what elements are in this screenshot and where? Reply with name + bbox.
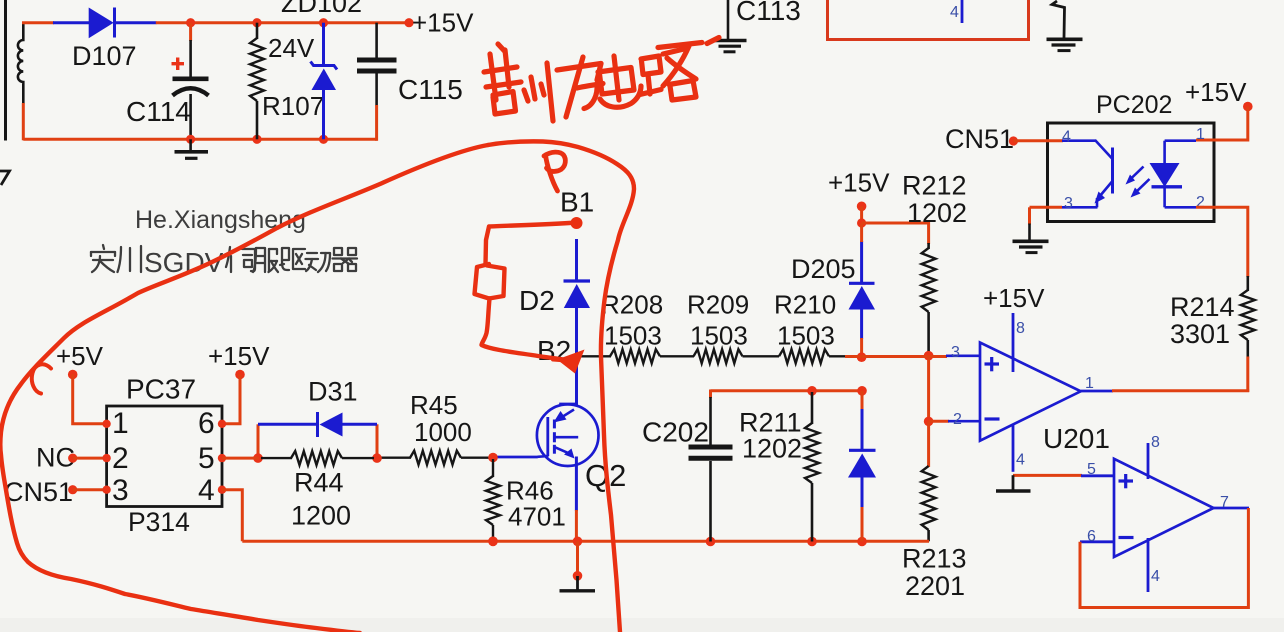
resistor R213: [922, 421, 936, 541]
wire to R212 top: [862, 223, 929, 244]
node R45 Q2 base: [488, 453, 498, 463]
label 1503 a: [604, 321, 662, 351]
node bottom C114: [186, 135, 195, 144]
wire Q2 collector: [575, 356, 578, 405]
label 1503 b: [690, 321, 748, 351]
hand-drawn wire box to B2: [482, 299, 564, 360]
svg-text:D31: D31: [308, 377, 358, 407]
svg-text:1503: 1503: [604, 321, 662, 351]
pin 1 op-amp1: [1081, 375, 1113, 392]
svg-text:3: 3: [951, 344, 960, 361]
ground right of block: [1047, 1, 1083, 51]
wire D31 right stub: [376, 424, 379, 458]
label R211: [739, 408, 802, 438]
wire C202-R211 top: [711, 389, 863, 392]
wire pin3 to ground: [1030, 207, 1063, 241]
wire to op-amp pin3: [862, 354, 980, 358]
wire D31 left stub: [257, 424, 260, 458]
resistor R44: [261, 451, 374, 465]
label 4701: [508, 502, 566, 532]
svg-text:2201: 2201: [905, 571, 965, 601]
svg-text:5: 5: [198, 442, 215, 475]
label U201: [1043, 423, 1110, 454]
pin 3 label PC202: [1064, 195, 1073, 212]
label D107: [72, 41, 137, 71]
label R208: [601, 290, 663, 320]
pin 5 digit: [198, 442, 215, 475]
label 1200: [291, 501, 351, 531]
label 1202 R212: [907, 198, 967, 228]
label R212: [902, 171, 967, 201]
label 1000: [414, 417, 472, 447]
wire pin4 down: [222, 490, 242, 542]
node +15V PC37: [235, 370, 245, 380]
node +5V: [68, 370, 78, 380]
svg-text:D107: D107: [72, 41, 137, 71]
label +15V top: [412, 8, 474, 38]
label +15V PC202: [1185, 77, 1247, 107]
label R213: [902, 544, 967, 574]
resistor R46: [486, 459, 500, 541]
resistor R208: [610, 349, 660, 363]
svg-text:1503: 1503: [777, 321, 835, 351]
svg-text:1000: 1000: [414, 417, 472, 447]
label ZD102: [281, 0, 362, 18]
label R209: [687, 290, 749, 320]
label +15V D205: [828, 168, 890, 198]
pin 8 U201: [1148, 434, 1160, 479]
op-amp U201 triangle: [1114, 459, 1214, 557]
svg-text:5: 5: [1087, 461, 1096, 478]
svg-text:1200: 1200: [291, 501, 351, 531]
label 2201: [905, 571, 965, 601]
svg-text:4: 4: [1151, 568, 1160, 585]
svg-text:+15V: +15V: [983, 283, 1045, 313]
label C202: [642, 417, 709, 448]
node bus D205b: [857, 537, 867, 547]
svg-text:+15V: +15V: [208, 341, 270, 371]
light arrows PC202: [1126, 167, 1150, 198]
node pin3 junction: [924, 351, 934, 361]
svg-text:C202: C202: [642, 417, 709, 448]
wire NC to pin2: [73, 457, 107, 460]
capacitor C115: [357, 23, 397, 141]
wire CN51 to pin3: [73, 488, 107, 491]
hand-drawn letter P: [544, 152, 565, 191]
label R107: [262, 91, 324, 121]
svg-text:4701: 4701: [508, 502, 566, 532]
wire R209-R210: [743, 355, 780, 357]
phototransistor PC202: [1062, 140, 1113, 207]
svg-text:R208: R208: [601, 290, 663, 320]
wire pin2 to R214: [1196, 207, 1248, 277]
capacitor C113 lead: [727, 0, 730, 40]
svg-text:1: 1: [112, 407, 129, 440]
node top R107: [252, 18, 261, 27]
node bus R211: [807, 537, 817, 547]
label He.Xiangsheng: [135, 206, 306, 234]
optocoupler PC37 box: [107, 406, 222, 507]
node CN51 left: [68, 485, 77, 494]
diode D107: [53, 8, 157, 39]
node +15V D205: [857, 202, 867, 212]
node pin2 junction: [924, 417, 934, 427]
label 24V: [268, 33, 315, 63]
svg-text:8: 8: [1016, 320, 1025, 337]
label B1: [560, 187, 594, 218]
pin 3 label op-amp: [951, 344, 960, 361]
hand-drawn loop left branch: [0, 145, 488, 632]
svg-text:P314: P314: [128, 507, 190, 537]
ground PC202 pin3: [1013, 241, 1049, 252]
resistor R211: [805, 392, 819, 542]
svg-text:C113: C113: [736, 0, 801, 26]
wire +15V stub: [860, 206, 863, 224]
capacitor C202: [689, 390, 733, 542]
wire Q2 emitter: [575, 457, 578, 542]
label C113: [736, 0, 801, 26]
pin 4 stub in block: [950, 0, 962, 23]
node bottom R107: [252, 135, 261, 144]
ground below Q2: [560, 576, 596, 591]
resistor R212: [922, 243, 936, 356]
wire top rail left: [22, 21, 54, 24]
node bottom ZD102: [319, 135, 328, 144]
pin 8 op-amp1: [1013, 313, 1025, 372]
resistor R210: [779, 349, 829, 363]
label R44: [294, 468, 344, 498]
node +15V top: [404, 18, 413, 27]
label +15V op-amp1: [983, 283, 1045, 313]
hand-written text braking circuit: [484, 38, 719, 122]
diode D2: [564, 239, 591, 356]
label 1503 c: [777, 321, 835, 351]
wire U201 feedback: [1080, 508, 1248, 608]
label PC202: [1096, 91, 1172, 119]
wire to op-amp pin2: [929, 420, 980, 423]
wire junction down: [927, 356, 930, 422]
svg-text:3: 3: [1064, 195, 1073, 212]
node CN51: [1009, 136, 1018, 145]
label B2: [537, 335, 571, 366]
svg-text:24V: 24V: [268, 33, 315, 63]
block outline (cut component): [828, 0, 1029, 40]
svg-text:1202: 1202: [907, 198, 967, 228]
svg-text:1: 1: [1085, 375, 1094, 392]
wire op-amp1 output: [1112, 389, 1249, 392]
svg-text:He.Xiangsheng: He.Xiangsheng: [135, 206, 306, 234]
wire R210 to node: [829, 355, 862, 358]
node top D205b: [857, 386, 867, 396]
svg-text:PC37: PC37: [126, 374, 196, 405]
svg-text:CN51: CN51: [4, 477, 73, 507]
svg-text:4: 4: [950, 4, 959, 21]
label R45: [410, 390, 458, 420]
pin 2 label PC202: [1196, 194, 1205, 211]
inductor T (winding): [18, 23, 23, 105]
capacitor C114: [173, 23, 209, 140]
wire R208-R209: [660, 355, 694, 357]
svg-text:R213: R213: [902, 544, 967, 574]
node Q2 ground: [573, 571, 583, 581]
diode D205 lower: [848, 391, 876, 542]
node R46 bottom: [488, 537, 498, 547]
svg-text:2: 2: [953, 411, 962, 428]
svg-text:U201: U201: [1043, 423, 1110, 454]
wire bottom rail: [23, 138, 376, 141]
node pin5 junction: [253, 453, 263, 463]
pin 3 digit: [112, 474, 129, 507]
hand-drawn branch wire to B1: [486, 223, 577, 265]
pin 4 U201: [1148, 538, 1160, 592]
label D31: [308, 377, 358, 407]
label C114: [126, 96, 191, 127]
pin 5 U201: [1081, 461, 1114, 478]
pin 2 digit: [112, 442, 129, 475]
pin 2 label op-amp: [953, 411, 962, 428]
plus sign U201: [1119, 474, 1134, 488]
svg-text:4: 4: [1062, 129, 1071, 146]
svg-text:R107: R107: [262, 91, 324, 121]
node top R211: [807, 386, 817, 396]
label + polarity C114: [172, 58, 185, 71]
node top ZD102: [319, 18, 328, 27]
label R210: [774, 290, 836, 320]
ground op-amp1: [996, 475, 1031, 491]
svg-text:1202: 1202: [742, 434, 802, 464]
svg-text:2: 2: [112, 442, 129, 475]
resistor R214: [1241, 276, 1255, 392]
wire pin5 to R44: [222, 457, 259, 460]
svg-text:1: 1: [1196, 126, 1205, 143]
svg-text:+15V: +15V: [828, 168, 890, 198]
label PC37: [126, 374, 196, 405]
svg-text:C114: C114: [126, 96, 191, 127]
node top C114: [186, 18, 195, 27]
node bus C202: [706, 537, 716, 547]
node +15V PC202: [1243, 102, 1253, 112]
label CN51 left: [4, 477, 73, 507]
pin 4 op-amp1: [1013, 424, 1025, 472]
pin dots PC37: [102, 420, 226, 494]
hand-drawn blob at B1: [571, 217, 583, 229]
label CN51 right: [945, 124, 1014, 154]
wire coil bottom to bottom rail: [22, 103, 25, 140]
node bus R46: [488, 537, 498, 547]
node D205 top: [857, 218, 866, 227]
label NC: [36, 443, 75, 473]
pin 1 digit: [112, 407, 129, 440]
node R44 right junction: [372, 453, 382, 463]
resistor R209: [694, 349, 743, 363]
label 1202 R211: [742, 434, 802, 464]
svg-text:+5V: +5V: [56, 341, 104, 371]
hand-drawn arrow at B2: [553, 350, 585, 374]
hand-drawn resistor box: [475, 264, 505, 299]
optocoupler PC202 box: [1048, 123, 1215, 222]
svg-text:4: 4: [198, 474, 215, 507]
svg-text:+15V: +15V: [412, 8, 474, 38]
transistor Q2 circle: [537, 404, 599, 466]
pin 1 label PC202: [1196, 126, 1205, 143]
label R46: [506, 476, 554, 506]
svg-text:ZD102: ZD102: [281, 0, 362, 18]
label C115: [398, 74, 463, 105]
svg-text:D2: D2: [519, 285, 555, 316]
svg-text:4: 4: [1016, 452, 1025, 469]
svg-text:8: 8: [1151, 434, 1160, 451]
diode D205 upper: [849, 223, 876, 358]
svg-text:3: 3: [112, 474, 129, 507]
wire +5V to pin1: [73, 375, 107, 424]
wire pin4 to U201 pin5: [1013, 474, 1082, 477]
pin 6 U201: [1080, 528, 1114, 545]
zener diode ZD102: [311, 23, 338, 140]
wire +15V to pin6: [222, 375, 240, 424]
label D205: [791, 254, 856, 284]
wire Q2 base: [496, 456, 549, 457]
svg-text:3301: 3301: [1170, 319, 1230, 349]
partial glyph bottom-left: [0, 171, 10, 185]
resistor R107: [250, 23, 264, 140]
pin 6 digit: [198, 407, 215, 440]
pin 4 digit: [198, 474, 215, 507]
pin 4 label PC202: [1062, 129, 1071, 146]
wire Q2 emitter to ground: [576, 541, 579, 576]
wire bottom bus: [242, 540, 929, 543]
label +15V PC37: [208, 341, 270, 371]
op-amp U201a triangle: [980, 343, 1081, 441]
label P314: [128, 507, 190, 537]
svg-text:6: 6: [198, 407, 215, 440]
minus sign op-amp1: [985, 417, 1000, 420]
node NC: [68, 454, 77, 463]
svg-text:1503: 1503: [690, 321, 748, 351]
label +5V: [56, 341, 104, 371]
svg-text:R212: R212: [902, 171, 967, 201]
node bus Q2: [573, 537, 583, 547]
svg-text:7: 7: [1220, 494, 1229, 511]
svg-text:R209: R209: [687, 290, 749, 320]
resistor R45: [377, 451, 490, 465]
label Q2: [585, 458, 626, 493]
hand-drawn loop top and right branch: [488, 141, 634, 632]
wire transformer left rail: [4, 0, 7, 141]
label R214: [1170, 292, 1235, 322]
svg-text:6: 6: [1087, 528, 1096, 545]
diode D31: [258, 412, 377, 437]
node R208 line end: [857, 352, 867, 362]
svg-text:R45: R45: [410, 390, 458, 420]
LED PC202: [1150, 141, 1197, 208]
wire +15V to pin1: [1196, 107, 1248, 141]
label D2: [519, 285, 555, 316]
svg-text:R44: R44: [294, 468, 344, 498]
svg-text:B1: B1: [560, 187, 594, 218]
pin 7 U201: [1214, 494, 1250, 511]
transistor Q2 internals: [548, 404, 578, 459]
svg-text:PC202: PC202: [1096, 91, 1172, 119]
wire top rail to +15V: [156, 21, 409, 24]
svg-text:R210: R210: [774, 290, 836, 320]
svg-text:R214: R214: [1170, 292, 1235, 322]
svg-text:C115: C115: [398, 74, 463, 105]
hand-drawn C hook: [32, 364, 51, 393]
svg-text:D205: D205: [791, 254, 856, 284]
plus sign op-amp1: [985, 357, 1000, 371]
label Anchuan SGDV servo drive (CJK): [91, 245, 357, 278]
wire CN51 to pin4: [1013, 139, 1063, 142]
minus sign U201: [1119, 536, 1134, 539]
svg-text:+15V: +15V: [1185, 77, 1247, 107]
ground below C114: [175, 139, 209, 158]
wire B2 to R208: [577, 355, 611, 357]
label 3301: [1170, 319, 1230, 349]
ground C113: [713, 41, 747, 52]
svg-text:CN51: CN51: [945, 124, 1014, 154]
